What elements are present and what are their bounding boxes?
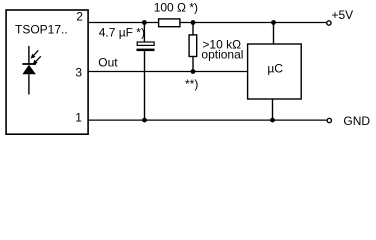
wire cap top lead — [143, 23, 145, 43]
svg-text:100 Ω *): 100 Ω *) — [154, 1, 198, 15]
svg-text:+5V: +5V — [332, 8, 354, 22]
svg-text:µC: µC — [267, 61, 283, 75]
svg-text:TSOP17..: TSOP17.. — [15, 23, 68, 37]
triangle — [22, 65, 36, 75]
node junction pull-up top — [191, 20, 196, 25]
IR receiver module U1 box — [6, 10, 88, 134]
light arrow 2 — [33, 56, 41, 64]
svg-text:optional: optional — [201, 48, 243, 62]
wire Out pin3 to uC — [88, 71, 248, 73]
svg-text:4.7 µF *): 4.7 µF *) — [99, 26, 145, 40]
terminal +5V — [327, 21, 331, 25]
svg-text:1: 1 — [75, 111, 82, 125]
wire anode lead — [28, 74, 30, 94]
node junction pull-up bottom — [191, 69, 196, 74]
svg-text:GND: GND — [343, 114, 370, 128]
terminal GND — [327, 118, 331, 122]
wire GND rail — [88, 119, 327, 121]
wire cap bottom lead to GND — [144, 51, 146, 120]
photodiode D1 — [22, 46, 40, 95]
resistor R2 pull-up >10k — [189, 23, 197, 72]
node junction cap top — [142, 20, 147, 25]
capacitor C1 4.7uF — [137, 23, 155, 121]
svg-text:**): **) — [185, 77, 198, 91]
svg-text:Out: Out — [98, 56, 118, 70]
resistor R1 100 Ohm — [159, 19, 180, 27]
microcontroller U2 box — [248, 44, 302, 99]
node junction uC supply — [271, 20, 276, 25]
wire Vs rail pin2 to +5V — [88, 22, 326, 24]
cathode bar — [22, 63, 36, 65]
wire pull-up bottom lead — [192, 57, 194, 72]
light arrow 1 — [31, 50, 39, 58]
wire uC ground lead — [272, 99, 274, 120]
node junction uC ground — [270, 118, 275, 123]
wire cathode lead — [28, 46, 30, 64]
svg-text:2: 2 — [76, 10, 83, 24]
wire pull-up top lead — [192, 23, 194, 35]
cap top plate — [137, 42, 154, 45]
node junction cap bottom — [142, 118, 147, 123]
svg-text:3: 3 — [75, 65, 82, 79]
cap bottom plate — [137, 49, 155, 52]
wire uC Vcc — [273, 23, 275, 45]
